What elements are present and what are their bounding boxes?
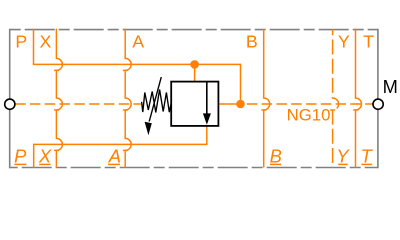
wire X port line with three hops bbox=[56, 29, 62, 168]
svg-text:A: A bbox=[132, 31, 144, 51]
wire pilot drain dashed line left segment (port M to spring) bbox=[15, 103, 141, 105]
label bottom T underline bbox=[361, 163, 372, 165]
svg-text:X: X bbox=[40, 31, 52, 51]
subplate frame right border bbox=[377, 29, 379, 169]
port M circle left bbox=[5, 99, 15, 109]
A hop tick at valve outlet line bbox=[123, 149, 128, 151]
node junction dot on P line above valve bbox=[190, 60, 199, 69]
wire T port line with hop over pilot line bbox=[356, 29, 362, 168]
A hop tick at P line bbox=[123, 69, 128, 71]
label bottom Y underline bbox=[338, 163, 348, 165]
label bottom A underline bbox=[108, 163, 120, 165]
wire valve outlet (box bottom, left along, elbow down to bottom port) bbox=[34, 126, 207, 168]
svg-text:P: P bbox=[15, 31, 27, 51]
Y hop tick at pilot line bbox=[330, 109, 335, 111]
svg-text:P: P bbox=[14, 145, 27, 166]
svg-text:A: A bbox=[108, 145, 121, 166]
valve internal flow arrowhead bbox=[203, 113, 211, 124]
B hop tick at pilot line bbox=[261, 109, 266, 111]
valve adjustment arrow shaft bbox=[149, 77, 161, 122]
svg-text:Y: Y bbox=[336, 145, 350, 166]
port M circle right bbox=[373, 99, 383, 109]
wire P supply line (top P port, elbow right, corner down to pilot junction) bbox=[34, 29, 241, 101]
subplate frame top border bbox=[10, 29, 378, 31]
svg-text:NG10: NG10 bbox=[287, 106, 331, 125]
svg-text:X: X bbox=[38, 145, 52, 166]
label bottom P underline bbox=[14, 163, 26, 165]
svg-text:B: B bbox=[270, 145, 282, 166]
wire pilot dashed line right segment (junction to port M right) bbox=[247, 103, 373, 105]
svg-text:B: B bbox=[246, 31, 258, 51]
X hop tick at P line bbox=[54, 69, 59, 71]
svg-text:T: T bbox=[363, 31, 374, 51]
wire B port line with hop over pilot line bbox=[264, 29, 270, 168]
wire A port line with three hops bbox=[125, 29, 131, 168]
wire valve inlet drop (junction to box top) bbox=[194, 64, 196, 81]
A hop tick at pilot line bbox=[123, 109, 128, 111]
valve internal flow arrow line bbox=[206, 82, 208, 115]
X hop tick at valve outlet line bbox=[54, 149, 59, 151]
valve DBV body box bbox=[171, 82, 218, 126]
node junction dot at valve pilot / P line corner bbox=[236, 100, 245, 109]
label bottom B underline bbox=[270, 163, 281, 165]
label bottom X underline bbox=[39, 163, 50, 165]
subplate frame bottom border bbox=[10, 167, 378, 169]
svg-text:T: T bbox=[361, 145, 374, 166]
X hop tick at pilot line bbox=[54, 109, 59, 111]
subplate frame left border bbox=[9, 29, 11, 169]
svg-text:Y: Y bbox=[338, 31, 350, 51]
wire valve pilot connection (box right to junction) bbox=[218, 103, 240, 105]
valve adjustment arrowhead bbox=[145, 122, 152, 135]
svg-text:M: M bbox=[383, 76, 398, 97]
T hop tick at pilot line bbox=[353, 109, 358, 111]
valve spring bbox=[142, 90, 172, 113]
wire Y port dashed line with hop over pilot line bbox=[333, 29, 339, 167]
